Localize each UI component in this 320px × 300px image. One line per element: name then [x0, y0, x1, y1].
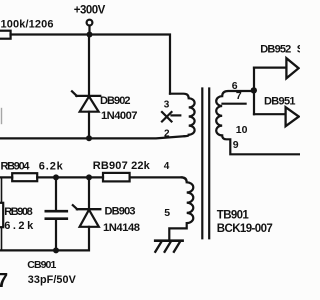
node junction top rail [87, 32, 93, 38]
svg-text:CB901: CB901 [27, 259, 56, 271]
resistor RB908 (cut off at left edge) [0, 203, 3, 227]
svg-text:7: 7 [0, 270, 8, 292]
wire to DB952 [254, 66, 286, 68]
svg-text:10: 10 [236, 124, 248, 136]
diode DB952 [286, 58, 298, 78]
svg-text:RB908: RB908 [4, 206, 33, 218]
wire +300V stub [88, 26, 90, 33]
capacitor CB901 [46, 211, 67, 219]
node junction rectifier branch [251, 87, 257, 93]
diode DB902 [72, 91, 100, 111]
transformer core lines [201, 89, 203, 239]
wire middle horizontal net [0, 136, 185, 138]
resistor 100k/1206 [0, 31, 11, 39]
diode DB951 [286, 107, 299, 126]
svg-text:33pF/50V: 33pF/50V [28, 274, 77, 286]
svg-text:S: S [297, 44, 300, 56]
svg-text:7: 7 [236, 90, 242, 102]
svg-text:1N4007: 1N4007 [101, 110, 138, 122]
diode DB903 [73, 205, 101, 227]
node junction at DB903 top [86, 174, 92, 180]
svg-text:3: 3 [164, 99, 170, 110]
pin 3 no-connection X mark [162, 112, 180, 122]
svg-text:5: 5 [164, 207, 170, 219]
terminal +300V [87, 20, 93, 26]
svg-text:6.2k: 6.2k [39, 161, 64, 173]
resistor RB907 [103, 173, 130, 182]
wire pin 7 tap [223, 103, 246, 105]
svg-text:6.2k: 6.2k [4, 220, 34, 232]
wire lower row net [0, 176, 182, 178]
svg-text:DB952: DB952 [260, 44, 291, 56]
wire top rail from R901 to transformer pin 1 [11, 35, 171, 94]
svg-text:DB902: DB902 [100, 95, 131, 107]
ground symbol [155, 241, 182, 252]
svg-text:TB901: TB901 [217, 209, 250, 221]
svg-text:RB904: RB904 [1, 161, 31, 173]
resistor RB904 [12, 173, 37, 181]
wire DB903 anode to bottom net [0, 227, 89, 251]
svg-text:2: 2 [164, 129, 170, 140]
wire DB902 anode lead [88, 112, 90, 139]
svg-text:BCK19-007: BCK19-007 [217, 223, 273, 235]
node junction at CB901 top [53, 174, 59, 180]
svg-text:9: 9 [233, 139, 239, 151]
wire DB902 cathode lead [88, 35, 90, 96]
svg-text:4: 4 [164, 161, 170, 172]
transformer TB901 primary winding pins 1-2 [170, 94, 195, 137]
transformer TB901 secondary winding pins 6-9 [216, 91, 300, 154]
svg-text:DB951: DB951 [264, 96, 296, 108]
transformer TB901 winding pins 4-5 [169, 177, 193, 239]
svg-text:RB907 22k: RB907 22k [93, 160, 151, 172]
wire CB901 leads [55, 177, 57, 250]
node junction bottom net [53, 247, 59, 253]
wire rectifier branch vertical [253, 68, 255, 115]
node junction middle wire [86, 135, 92, 141]
wire RB908 leads [1, 177, 3, 250]
wire left edge remnant [1, 109, 3, 124]
svg-text:+300V: +300V [74, 4, 106, 16]
wire DB903 cathode lead [88, 177, 90, 209]
svg-text:DB903: DB903 [105, 206, 136, 218]
svg-text:1N4148: 1N4148 [103, 222, 140, 234]
wire to DB951 [254, 113, 286, 115]
svg-text:100k/1206: 100k/1206 [1, 18, 54, 30]
